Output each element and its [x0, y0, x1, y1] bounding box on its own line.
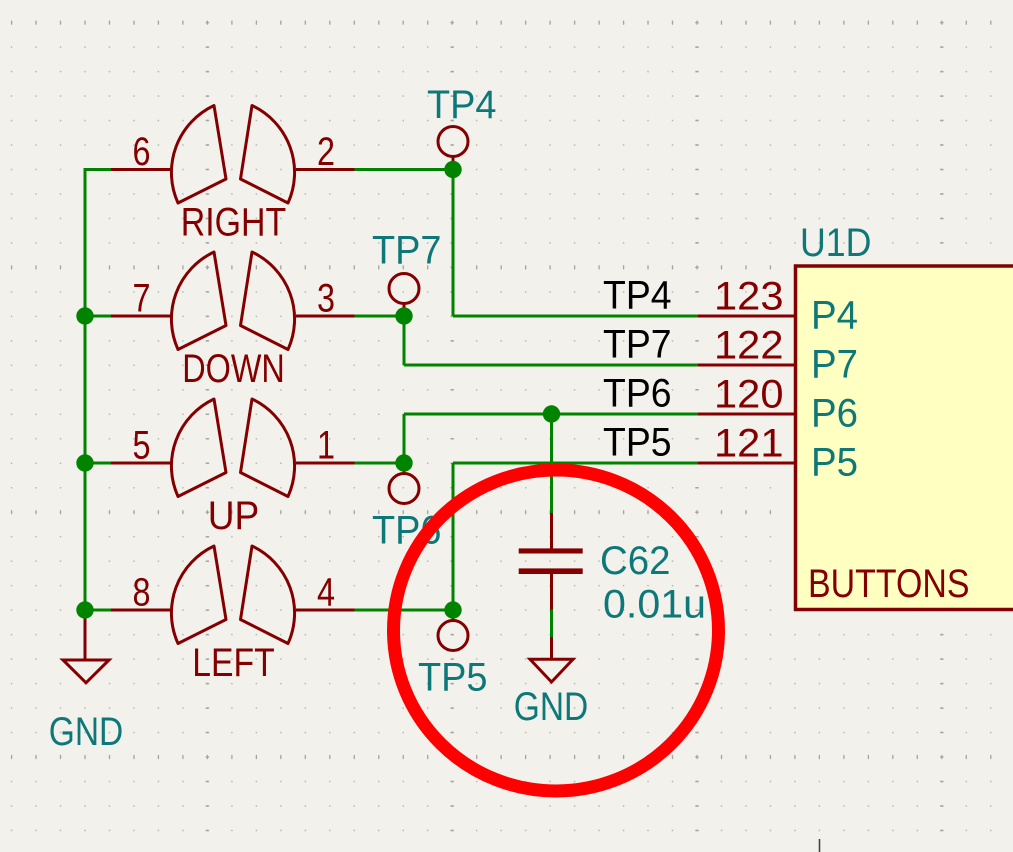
svg-text:TP5: TP5: [603, 420, 672, 464]
svg-text:0.01u: 0.01u: [603, 583, 706, 627]
cursor mark bottom right: [819, 839, 821, 852]
pin 120 (P6) of U1D: [698, 413, 796, 416]
svg-text:122: 122: [714, 324, 784, 368]
wire net TP5 vertical: [452, 463, 455, 610]
junction (453,610): [444, 601, 461, 618]
test point TP6: [403, 462, 406, 475]
pin 5 (left) of SW_UP: [111, 462, 171, 465]
test point TP7: [403, 303, 406, 316]
pushbutton SW_DOWN body: [171, 252, 294, 350]
pushbutton SW_LEFT body: [171, 546, 294, 644]
pin 2 (right) of SW_RIGHT: [296, 168, 355, 171]
svg-text:P7: P7: [811, 343, 858, 387]
svg-text:GND: GND: [514, 685, 589, 729]
svg-text:TP4: TP4: [427, 83, 497, 127]
wire row RIGHT left: [84, 168, 113, 171]
svg-text:TP5: TP5: [418, 656, 488, 700]
pin 1 (right) of SW_UP: [296, 462, 355, 465]
ground symbol left: [84, 610, 87, 660]
svg-text:3: 3: [317, 277, 335, 321]
wire row RIGHT right: [354, 168, 454, 171]
pin 7 (left) of SW_DOWN: [111, 315, 171, 318]
svg-text:UP: UP: [208, 494, 260, 538]
pushbutton SW_UP body: [171, 399, 294, 497]
pin 122 (P7) of U1D: [698, 364, 796, 367]
junction (404,463): [395, 454, 412, 471]
junction (404,316): [395, 307, 412, 324]
wire GND rail vertical: [84, 170, 87, 611]
wire C62 bottom to GND: [550, 609, 553, 637]
wire row DOWN right: [354, 315, 405, 318]
svg-text:TP7: TP7: [603, 322, 672, 366]
svg-text:8: 8: [133, 571, 151, 615]
svg-text:1: 1: [317, 424, 335, 468]
junction (85,463): [76, 454, 93, 471]
svg-text:LEFT: LEFT: [192, 641, 275, 685]
svg-text:7: 7: [133, 277, 151, 321]
wire row UP left: [84, 462, 113, 465]
pin 4 (right) of SW_LEFT: [296, 609, 355, 612]
pushbutton SW_RIGHT body: [171, 106, 294, 204]
IC U1D body: [796, 266, 1013, 610]
wire net TP6 vertical: [403, 414, 406, 463]
wire row UP right: [354, 462, 405, 465]
svg-text:123: 123: [714, 275, 784, 319]
wire net TP6 horizontal to P6: [404, 413, 698, 416]
test point TP5: [452, 609, 455, 622]
pin 123 (P4) of U1D: [698, 315, 796, 318]
svg-text:U1D: U1D: [800, 221, 872, 265]
svg-text:121: 121: [714, 422, 784, 466]
svg-text:BUTTONS: BUTTONS: [808, 562, 970, 606]
junction (552,414): [543, 405, 560, 422]
wire net TP7 horizontal to P7: [404, 364, 698, 367]
svg-text:2: 2: [317, 130, 335, 174]
svg-text:120: 120: [714, 373, 784, 417]
svg-text:TP4: TP4: [603, 273, 672, 317]
wire row DOWN left: [84, 315, 113, 318]
junction (453,170): [444, 161, 461, 178]
svg-text:4: 4: [317, 571, 335, 615]
junction (85,610): [76, 601, 93, 618]
wire net TP4 vertical: [452, 170, 455, 317]
ground symbol under C62: [550, 637, 553, 659]
wire net TP5 horizontal to P5: [453, 462, 698, 465]
svg-text:TP7: TP7: [372, 229, 442, 273]
pin 6 (left) of SW_RIGHT: [111, 168, 171, 171]
wire row LEFT left: [84, 609, 113, 612]
svg-text:P4: P4: [811, 294, 858, 338]
annotation red circle: [394, 470, 719, 791]
pin 121 (P5) of U1D: [698, 462, 796, 465]
svg-text:6: 6: [133, 130, 151, 174]
svg-text:DOWN: DOWN: [182, 347, 285, 391]
svg-text:C62: C62: [600, 539, 671, 583]
svg-text:5: 5: [133, 424, 151, 468]
test point TP4: [452, 156, 455, 169]
capacitor C62: [550, 513, 553, 549]
svg-text:TP6: TP6: [603, 371, 672, 415]
pin 3 (right) of SW_DOWN: [296, 315, 355, 318]
junction (85,316): [76, 307, 93, 324]
svg-text:P6: P6: [811, 392, 858, 436]
wire net TP4 horizontal to P4: [453, 315, 698, 318]
svg-text:GND: GND: [49, 710, 124, 754]
wire C62 top: [550, 414, 553, 513]
pin 8 (left) of SW_LEFT: [111, 609, 171, 612]
svg-text:RIGHT: RIGHT: [181, 201, 287, 245]
wire net TP7 vertical: [403, 316, 406, 365]
wire row LEFT right: [354, 609, 454, 612]
svg-text:P5: P5: [811, 441, 858, 485]
